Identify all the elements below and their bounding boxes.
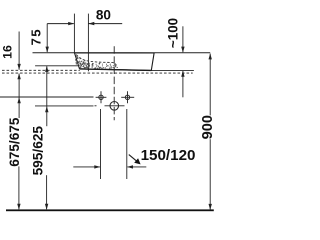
extension line x=74.4 [73, 14, 75, 53]
extension line x=88.4 [87, 14, 89, 72]
595 line lower segment [46, 175, 48, 209]
center line through drain (dashed) x=114.2 [113, 46, 115, 120]
675 top arrow at line A [17, 97, 20, 103]
basin ceramic stipple dots [76, 56, 116, 68]
basin interior hidden bowl line (dashed) [76, 55, 117, 68]
dashed console line upper left y=70.3 [2, 69, 80, 71]
right counter top solid line y=70.6 [151, 70, 194, 72]
150/120 extension line left x=100.5 [100, 109, 102, 179]
left tap hole symbol [96, 91, 107, 103]
svg-text:80: 80 [96, 7, 111, 22]
dimension 900 line x=210.2 [209, 53, 212, 59]
dimension 16 line x=19.1 [18, 32, 20, 70]
basin bottom edge (thicker) [80, 69, 151, 71]
drain circle horizontal center line [105, 105, 125, 107]
svg-text:150/120: 150/120 [141, 147, 196, 164]
svg-text:900: 900 [200, 115, 216, 139]
drain circle [110, 102, 119, 111]
dimension 75 vertical line x=47.2 [46, 24, 48, 52]
svg-text:675/675: 675/675 [7, 117, 22, 167]
svg-text:75: 75 [29, 28, 44, 45]
150/120 dimension arrows y=166.9 [73, 166, 100, 168]
595 top arrow at line B [45, 106, 48, 112]
rim reference line [33, 52, 211, 54]
svg-text:595/625: 595/625 [30, 126, 45, 176]
dimension ~100 line x=182.9 [182, 26, 184, 52]
washbasin outline [75, 53, 155, 71]
leader arrow to 150/120 [129, 155, 137, 162]
dashed console line lower y=73.1 [2, 72, 193, 74]
150/120 extension line right x=126.8 [126, 109, 128, 179]
right tap hole symbol [121, 91, 134, 103]
horizontal reference line B y=105.9 [35, 105, 94, 107]
dimension line y=23.6 for 80 [47, 23, 74, 25]
75 lower arrow / 595 line upper part [45, 66, 48, 72]
675 line lower segment [18, 166, 20, 209]
svg-text:~100: ~100 [166, 18, 181, 48]
svg-text:16: 16 [0, 45, 14, 59]
horizontal reference line A y=97 [0, 96, 94, 98]
floor line [6, 209, 214, 211]
left counter top solid line y=65.8 [35, 65, 78, 67]
